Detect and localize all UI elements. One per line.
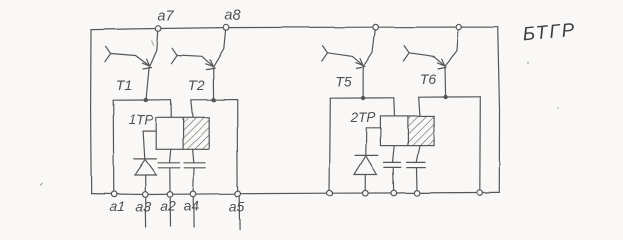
transistor T5 <box>322 30 375 98</box>
wire b5 riser <box>479 97 482 193</box>
capacitor C2 <box>184 149 206 191</box>
stray pencil mark <box>527 62 529 64</box>
transformer 1TP core <box>156 117 209 149</box>
node a7 terminal <box>156 26 162 32</box>
diode VD1 <box>134 159 157 191</box>
svg-text:Т6: Т6 <box>420 71 437 87</box>
wire link to transformer 1TP left top <box>170 100 172 118</box>
wire b1 riser <box>329 98 332 193</box>
wire left border <box>90 30 93 194</box>
wire T2 winding link <box>191 99 237 101</box>
transformer 2TP core <box>380 116 433 145</box>
capacitor C4 <box>407 146 426 191</box>
svg-text:2ТР: 2ТР <box>350 110 376 125</box>
svg-text:а1: а1 <box>110 198 126 214</box>
svg-text:БТГР: БТГР <box>522 20 577 46</box>
svg-text:а7: а7 <box>158 9 175 25</box>
wire link to transformer 2TP right top <box>419 97 420 116</box>
svg-text:а8: а8 <box>224 8 240 24</box>
stray pencil mark <box>557 107 559 109</box>
node T6 collector terminal <box>456 24 462 30</box>
node a4 terminal <box>190 191 196 197</box>
svg-text:а4: а4 <box>183 198 199 214</box>
wire a1 riser <box>112 100 115 194</box>
wire link to transformer 2TP left top <box>393 98 396 117</box>
svg-text:Т2: Т2 <box>188 77 205 93</box>
svg-text:1ТР: 1ТР <box>129 112 154 127</box>
wire a2 tail <box>169 197 171 226</box>
wire link to transformer 1TP right top <box>191 100 193 118</box>
node a8 terminal <box>223 25 229 31</box>
diode VD2 <box>354 155 377 190</box>
wire top bus <box>91 27 498 30</box>
transistor T1 <box>105 31 158 100</box>
junction T6 on winding link <box>443 95 447 99</box>
node a2 terminal <box>167 192 173 198</box>
node b3 terminal <box>391 190 397 196</box>
capacitor C1 <box>158 149 180 191</box>
wire T5 winding link <box>330 97 394 99</box>
junction T1 on winding link <box>144 98 148 102</box>
node b5 terminal <box>477 190 483 196</box>
wire T6 winding link <box>419 96 481 98</box>
wire a5 tail <box>238 197 240 231</box>
junction T2 on winding link <box>211 98 215 102</box>
transistor T2 <box>172 30 226 99</box>
svg-text:Т1: Т1 <box>116 77 132 93</box>
node a3 terminal <box>143 192 149 198</box>
wire bottom bus <box>91 192 499 194</box>
junction T5 on winding link <box>361 96 365 100</box>
wire right border <box>498 27 500 192</box>
wire T1 winding link <box>113 99 171 102</box>
node T5 collector terminal <box>373 24 379 30</box>
node a5 terminal <box>235 191 241 197</box>
wire stub 2TP to diode <box>366 128 381 156</box>
node a1 terminal <box>111 192 117 198</box>
svg-text:Т5: Т5 <box>335 74 352 90</box>
stray pencil mark <box>152 41 155 47</box>
svg-text:а2: а2 <box>160 198 176 214</box>
svg-text:а3: а3 <box>136 199 152 215</box>
transistor T6 <box>403 30 458 96</box>
capacitor C3 <box>384 146 401 191</box>
node b2 terminal <box>363 190 369 196</box>
node b1 terminal <box>327 190 333 196</box>
stray pencil mark <box>40 183 43 186</box>
svg-text:а5: а5 <box>229 199 245 215</box>
wire stub 1TP to diode <box>143 131 156 159</box>
wire a5 riser <box>236 100 238 194</box>
wire a3 tail <box>145 197 147 227</box>
wire a4 tail <box>192 197 194 227</box>
node b4 terminal <box>414 190 420 196</box>
